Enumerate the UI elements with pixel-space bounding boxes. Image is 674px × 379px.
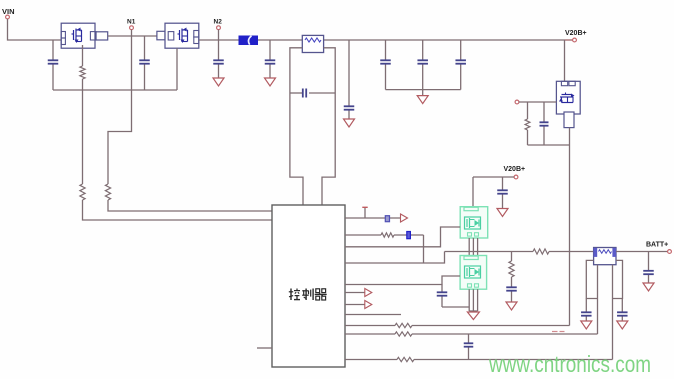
wire R2 to controller [83,200,273,220]
terminal N2 [217,26,221,30]
capacitor C1 [48,60,59,63]
wire C13 to gnd net [442,306,469,308]
capacitor C3 [213,60,224,63]
resistor R2 [80,184,85,200]
transistor Q2 symbol [178,28,188,44]
wire C16 stem [585,299,587,322]
wire R3 to controller [108,200,272,211]
signal arrow A1 [401,214,408,222]
wire N1 down [108,30,132,184]
capacitor C5 [303,89,306,98]
wire net arrow3 [345,304,365,306]
terminal V20B+ top [573,38,577,42]
wire main rail [199,39,565,41]
node VIN label [2,7,15,16]
capacitor C9 lead [460,40,462,90]
signal arrow A2 [365,289,372,297]
wire C15 stem [648,252,650,284]
terminal BATT+ [668,250,672,254]
wire Q2 source down [176,48,178,90]
junction stub T [364,208,366,218]
wire C10 stem [543,102,545,145]
transistor Q4 box [460,207,488,238]
ground under C11 [497,209,508,217]
capacitor C6 [344,106,355,109]
wire kelvin2 left inner [597,265,599,334]
wire N2 down [218,30,220,78]
wire VIN to Q1 [8,19,62,40]
wire Q1 drain to N1 [108,35,157,37]
wire Q3 source down [569,128,571,326]
capacitor C1 lead [52,40,54,90]
wire source bus [53,89,177,91]
component B2 [407,232,411,239]
wire Q3 drain [564,40,566,81]
wire net A [345,325,570,327]
wire C17 stem [621,299,623,322]
wire kelvin cap link [290,92,335,94]
wire gnd stem [422,90,424,96]
svg-text:N1: N1 [127,19,136,26]
terminal N1 [130,26,134,30]
resistor R9 [397,357,414,361]
wire C13 stem [441,285,443,308]
capacitor C2 lead [144,36,146,90]
wire net arrow2 [345,292,365,294]
ground under Q5 [467,312,479,320]
wire controller left stub [257,347,272,349]
transistor Q4 symbol [465,217,481,229]
capacitor C4 [265,60,276,63]
wire net gate2 [345,276,460,285]
capacitor C15 [643,271,654,274]
svg-text:V20B+: V20B+ [565,30,587,37]
capacitor C17 [617,312,628,315]
capacitor C10 [540,122,549,125]
terminal VIN [6,15,10,19]
resistor R5 [525,119,530,130]
sense resistor RS1 box [302,35,323,52]
transistor Q1 box [61,23,96,48]
capacitor C7 lead [385,40,387,90]
capacitor C14 [464,343,474,346]
ground under C16 [581,321,592,329]
wire net1 [345,217,400,219]
wire Q4 to Q5 [469,238,477,256]
transistor Q2 box [165,23,199,48]
node N2 label [214,19,223,26]
wire net2 [345,235,424,263]
capacitor C6 lead [348,40,350,119]
controller U1 label [289,289,327,301]
sense resistor RS2 element [599,250,612,254]
wire V20B+ stub [565,39,573,41]
wire Q1 source down [82,45,84,66]
wire Q5 source down [469,289,477,312]
wire net gate1 [345,227,460,247]
ground under cap bus [417,96,428,104]
wire V20B+ mid [473,176,514,178]
ground under C15 [643,283,654,291]
svg-text:N2: N2 [214,19,223,26]
transistor Q5 box [460,256,487,290]
sense resistor RS2 pads [594,248,616,256]
inductor L1 [533,249,549,254]
watermark [488,351,651,377]
svg-text:www.cntronics.com: www.cntronics.com [488,351,651,377]
svg-text:V20B+: V20B+ [504,166,526,173]
capacitor C16 [581,312,592,315]
capacitor C8 [417,60,428,63]
resistor R7 [395,323,412,327]
wire Q3 gate [519,101,557,103]
component B1 [385,216,389,222]
net V20B+ label mid [504,166,526,173]
wire R6 stem [511,252,513,303]
resistor pad Q1 right [96,32,108,40]
capacitor C8 lead [422,40,424,90]
wire R5 stem [527,102,529,145]
wire cap bus [386,89,461,91]
transistor Q3 symbol [559,93,575,103]
transistor Q5 symbol [465,266,481,278]
ground under C4 [265,78,276,86]
wire net stub [345,314,401,316]
wire gate net bottom [528,144,570,146]
node N1 label [127,19,136,26]
wire kelvin2 right tap [613,260,623,298]
capacitor C7 [380,60,391,63]
capacitor C11 [497,190,508,193]
wire to BATT terminal [616,251,668,253]
fuse F1 [239,36,258,45]
resistor R6 [509,261,514,277]
resistor R3 [105,184,110,200]
ground under C3 [213,78,224,86]
wire net switch [345,252,445,264]
sense resistor RS2 box [594,248,616,265]
controller U1 box [272,205,345,367]
pin pad Q3 source [564,112,574,128]
transistor Q3 box [556,81,580,114]
wire net C [345,359,613,361]
resistor pad Q2 left [157,31,165,40]
wire kelvin2 left tap [586,260,597,298]
ground under C12 [506,302,517,310]
ground under C17 [617,321,628,329]
wire C14 stem [468,334,470,360]
ground under C6 [344,119,355,127]
wire kelvin2 right inner [612,265,614,360]
signal arrow A3 [365,301,372,309]
capacitor C12 [506,287,517,290]
wire kelvin left [290,48,303,205]
wire V20B+ to Q4 [472,177,474,207]
net V20B+ label top [565,30,587,37]
tick red small [552,331,565,333]
resistor R1 [80,66,85,79]
wire switch node rail [445,251,594,253]
net BATT+ label [646,242,668,249]
wire C11 stem [502,177,504,209]
capacitor C9 [455,60,466,63]
resistor R8 [395,332,412,336]
terminal V20B+ mid [514,175,518,179]
sense resistor RS1 element [305,38,321,42]
terminal Q3 gate [515,100,519,104]
transistor Q1 symbol [72,28,82,44]
svg-text:BATT+: BATT+ [646,242,668,249]
capacitor C2 [139,60,150,63]
resistor R4 [381,233,394,237]
tick red T [362,206,367,208]
wire kelvin right [322,48,335,205]
wire net B [345,333,598,335]
wire R1 to R2 column [82,79,84,184]
capacitor C4 lead [269,40,271,78]
capacitor C13 [437,292,448,295]
